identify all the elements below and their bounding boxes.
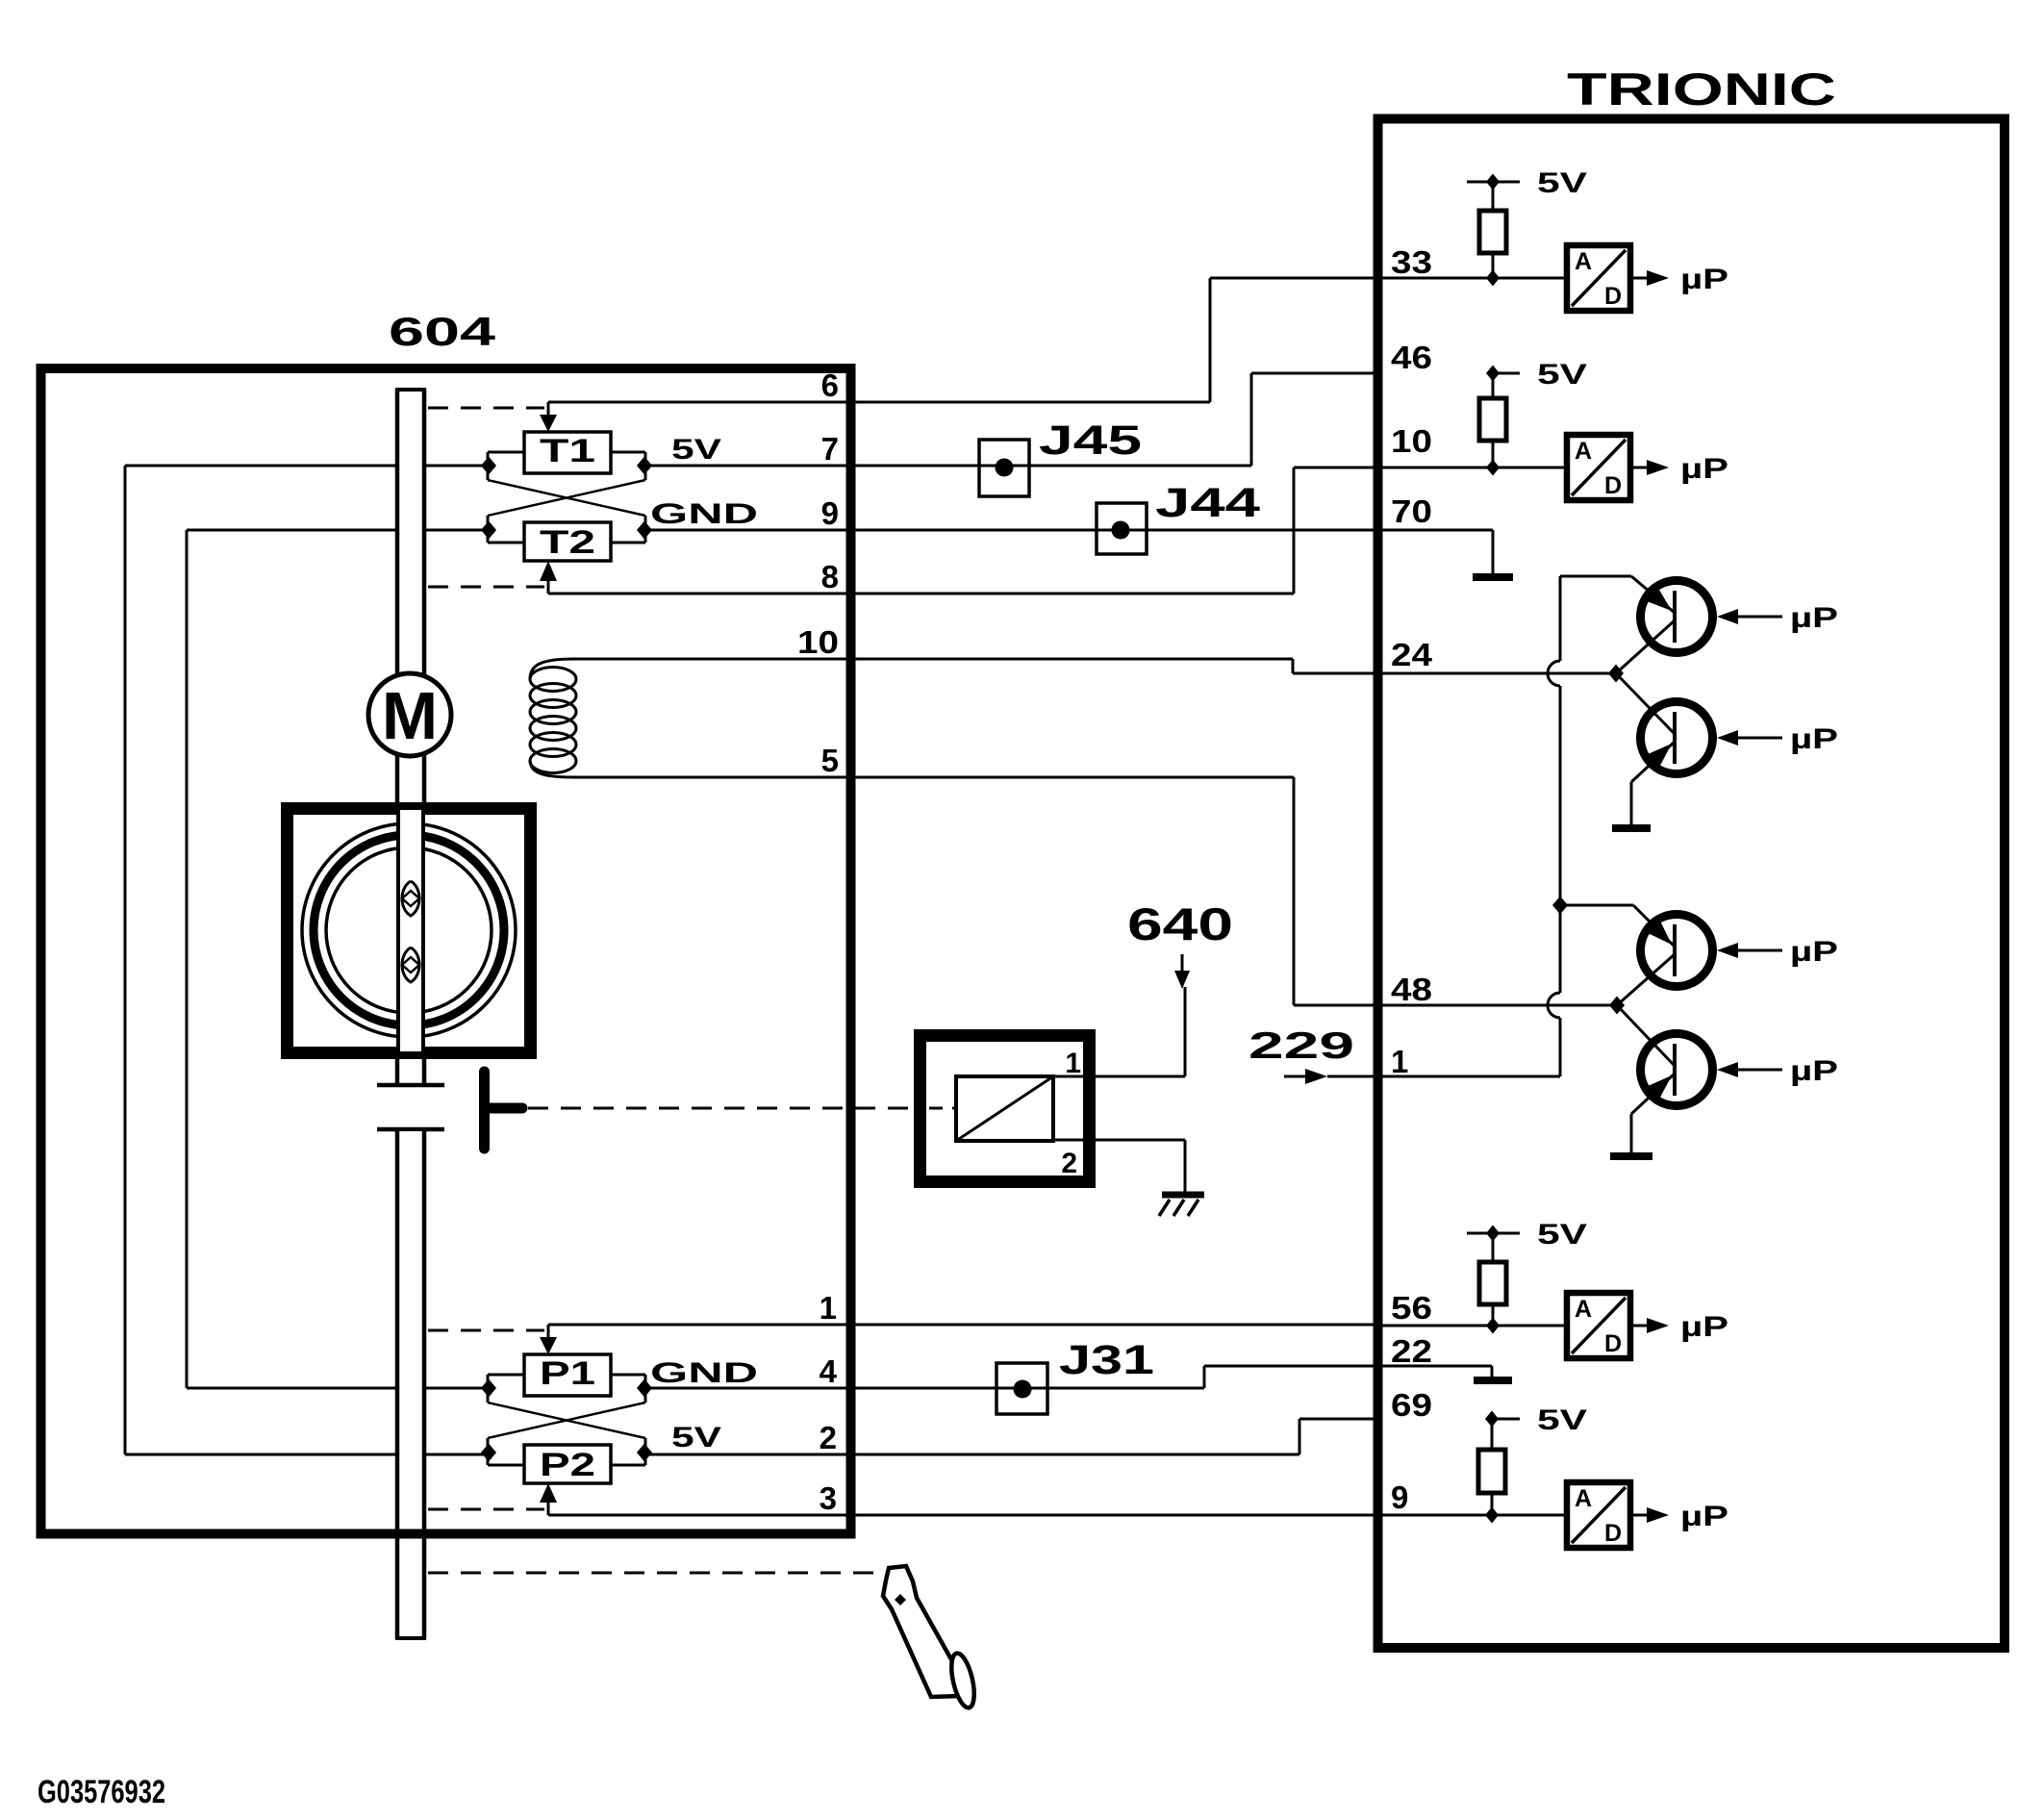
svg-text:5: 5 (821, 743, 839, 778)
svg-text:2: 2 (1061, 1148, 1077, 1179)
svg-text:2: 2 (820, 1420, 837, 1455)
svg-text:D: D (1604, 472, 1622, 499)
svg-text:G03576932: G03576932 (38, 1774, 165, 1810)
svg-text:P1: P1 (540, 1355, 595, 1392)
svg-text:3: 3 (820, 1480, 837, 1516)
svg-text:24: 24 (1391, 637, 1433, 672)
svg-text:A: A (1575, 248, 1592, 275)
svg-text:µP: µP (1680, 264, 1728, 295)
svg-text:4: 4 (820, 1353, 838, 1389)
svg-text:D: D (1604, 283, 1622, 310)
svg-text:5V: 5V (1537, 1219, 1587, 1251)
svg-text:7: 7 (821, 431, 839, 467)
svg-text:5V: 5V (1537, 1404, 1587, 1436)
svg-text:5V: 5V (1537, 167, 1587, 199)
svg-text:µP: µP (1680, 1311, 1728, 1343)
svg-text:µP: µP (1790, 1055, 1838, 1087)
svg-text:8: 8 (821, 559, 839, 594)
svg-text:A: A (1575, 1485, 1592, 1512)
svg-text:46: 46 (1391, 340, 1432, 375)
svg-text:J31: J31 (1059, 1337, 1154, 1383)
svg-text:TRIONIC: TRIONIC (1567, 63, 1836, 114)
svg-text:9: 9 (1391, 1479, 1408, 1515)
svg-text:A: A (1575, 1296, 1592, 1323)
svg-text:5V: 5V (671, 434, 721, 466)
svg-text:5V: 5V (671, 1422, 721, 1453)
svg-text:µP: µP (1790, 602, 1838, 634)
svg-text:604: 604 (389, 309, 496, 354)
svg-text:1: 1 (1391, 1044, 1408, 1079)
svg-text:6: 6 (821, 367, 839, 403)
svg-text:56: 56 (1391, 1290, 1432, 1326)
svg-text:D: D (1604, 1520, 1622, 1547)
svg-text:5V: 5V (1537, 359, 1587, 391)
svg-text:22: 22 (1391, 1333, 1432, 1369)
svg-text:1: 1 (820, 1290, 837, 1326)
svg-text:µP: µP (1680, 1501, 1728, 1532)
svg-text:µP: µP (1790, 936, 1838, 968)
svg-text:D: D (1604, 1330, 1622, 1357)
svg-text:70: 70 (1391, 493, 1432, 529)
svg-text:P2: P2 (540, 1447, 595, 1483)
svg-text:10: 10 (797, 624, 839, 660)
svg-text:GND: GND (650, 498, 758, 530)
svg-text:µP: µP (1790, 723, 1838, 755)
svg-text:229: 229 (1248, 1025, 1354, 1067)
svg-text:J44: J44 (1155, 480, 1260, 526)
svg-text:9: 9 (821, 495, 839, 531)
svg-text:T2: T2 (540, 524, 595, 561)
svg-text:T1: T1 (540, 433, 595, 469)
svg-text:1: 1 (1065, 1048, 1081, 1079)
svg-text:640: 640 (1127, 898, 1233, 949)
svg-text:10: 10 (1391, 423, 1432, 459)
svg-text:69: 69 (1391, 1387, 1432, 1423)
svg-text:M: M (382, 678, 438, 753)
svg-text:A: A (1575, 438, 1592, 465)
svg-text:J45: J45 (1039, 417, 1142, 464)
svg-text:48: 48 (1391, 972, 1432, 1007)
svg-text:33: 33 (1391, 244, 1432, 280)
svg-text:µP: µP (1680, 453, 1728, 485)
svg-text:GND: GND (650, 1357, 758, 1389)
